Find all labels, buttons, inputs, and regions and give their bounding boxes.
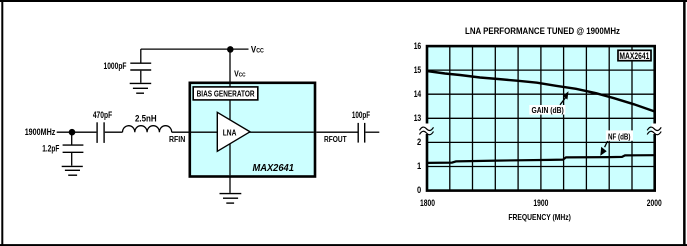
svg-text:1900: 1900 — [533, 198, 548, 209]
amplifier LNA triangle — [217, 112, 250, 151]
capacitor C 1000pF — [104, 49, 152, 83]
svg-text:RFOUT: RFOUT — [324, 135, 347, 144]
svg-text:LNA: LNA — [223, 128, 237, 138]
curve NF — [427, 155, 655, 163]
svg-text:MAX2641: MAX2641 — [253, 163, 294, 174]
node input junction — [69, 129, 76, 136]
wire internal vcc vertical — [229, 84, 231, 175]
wire Vcc top rail — [141, 48, 249, 50]
svg-text:1800: 1800 — [420, 198, 435, 209]
wire Vcc to bias — [229, 49, 231, 84]
capacitor C 1.2pF — [42, 132, 83, 166]
wire RFOUT — [316, 131, 357, 133]
inductor L 2.5nH — [123, 113, 172, 132]
ground below 1000pF — [130, 83, 152, 93]
chart gridlines — [427, 46, 655, 191]
wire inductor to RFIN — [172, 131, 189, 133]
annotation GAIN (dB) — [529, 91, 568, 115]
wire box to ground — [229, 177, 231, 193]
svg-text:100pF: 100pF — [352, 110, 371, 120]
capacitor C 100pF — [352, 110, 371, 143]
IC U1 MAX2641 box — [190, 83, 315, 177]
wire after 100pF — [365, 131, 379, 133]
wire input — [57, 131, 97, 133]
y axis labels — [414, 41, 422, 196]
axis break right — [647, 124, 661, 135]
curve GAIN — [427, 71, 655, 112]
axis break left — [420, 124, 434, 135]
svg-text:1: 1 — [417, 161, 422, 172]
wire cap to inductor — [105, 131, 123, 133]
svg-text:470pF: 470pF — [93, 110, 113, 120]
svg-text:1.2pF: 1.2pF — [42, 144, 59, 154]
svg-text:14: 14 — [414, 89, 422, 100]
svg-text:NF (dB): NF (dB) — [608, 132, 631, 141]
svg-text:GAIN (dB): GAIN (dB) — [532, 106, 565, 115]
capacitor C 470pF — [93, 110, 113, 143]
svg-text:BIAS GENERATOR: BIAS GENERATOR — [197, 89, 255, 99]
svg-text:LNA PERFORMANCE TUNED @ 1900MH: LNA PERFORMANCE TUNED @ 1900MHz — [465, 26, 620, 36]
svg-text:1900MHz: 1900MHz — [25, 127, 56, 138]
node Vcc junction — [227, 46, 234, 53]
svg-text:2000: 2000 — [647, 198, 662, 209]
svg-text:FREQUENCY (MHz): FREQUENCY (MHz) — [508, 212, 571, 222]
legend box MAX2641 — [618, 50, 651, 62]
ground below IC — [220, 194, 242, 204]
svg-text:MAX2641: MAX2641 — [619, 51, 650, 62]
svg-text:13: 13 — [414, 113, 422, 124]
annotation NF (dB) — [600, 130, 633, 155]
svg-text:RFIN: RFIN — [169, 135, 185, 144]
x axis labels — [420, 198, 662, 209]
svg-text:16: 16 — [414, 41, 422, 52]
block BIAS GENERATOR — [193, 87, 258, 100]
svg-text:1000pF: 1000pF — [104, 61, 127, 71]
wire internal signal horizontal — [191, 131, 314, 133]
ground below 1.2pF — [62, 166, 83, 175]
svg-text:0: 0 — [417, 185, 421, 196]
svg-text:15: 15 — [414, 65, 422, 76]
svg-text:2: 2 — [417, 137, 421, 148]
svg-text:2.5nH: 2.5nH — [135, 113, 157, 123]
chart plot area — [427, 46, 655, 191]
